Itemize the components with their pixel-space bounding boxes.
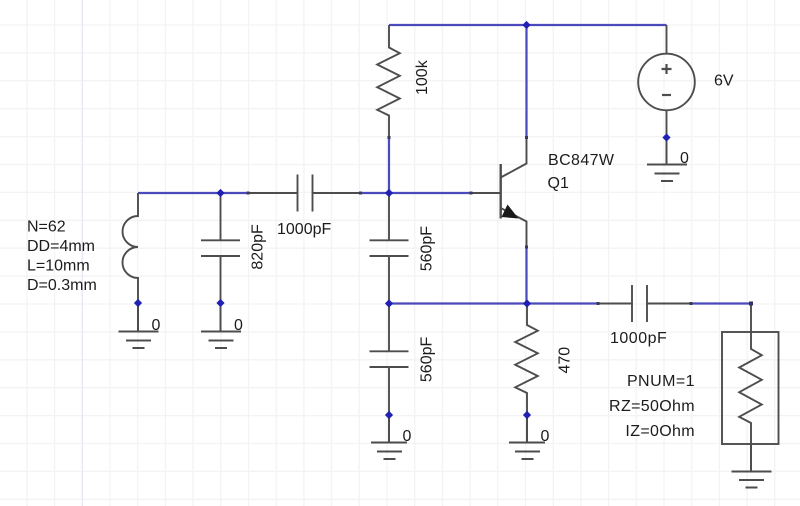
junction: C1 right pin: [359, 192, 362, 195]
svg-text:0: 0: [680, 150, 689, 167]
label: port parameters: [609, 373, 695, 440]
svg-text:L=10mm: L=10mm: [27, 258, 90, 275]
wire: R100k bottom to base row: [388, 138, 390, 194]
node: inductor gnd junction: [134, 299, 142, 307]
svg-text:Q1: Q1: [548, 175, 569, 192]
capacitor C3 560pF (upper): [370, 193, 409, 304]
inductor L1 (air coil): [123, 193, 139, 303]
svg-text:BC847W: BC847W: [548, 152, 615, 169]
svg-text:N=62: N=62: [27, 218, 66, 235]
svg-text:1000pF: 1000pF: [610, 330, 667, 347]
node: supply rail / collector junction: [522, 21, 530, 29]
junction: Q1 base pin: [470, 192, 473, 195]
svg-text:6V: 6V: [714, 73, 734, 90]
junction: R1 bottom pin: [388, 136, 391, 139]
wire: main horizontal base-row net: [138, 192, 248, 194]
node: output corner pin: [749, 302, 753, 306]
capacitor C4 560pF (lower): [370, 304, 409, 416]
label: inductor properties: [27, 218, 97, 294]
label: BC847W / Q1: [548, 152, 615, 192]
ground (C560 lower): [371, 415, 407, 459]
svg-text:RZ=50Ohm: RZ=50Ohm: [609, 398, 695, 415]
node: source minus junction: [662, 133, 670, 141]
voltage source V1 6V: [638, 25, 695, 138]
junction: C5 left pin: [597, 302, 600, 305]
junction: C1 left pin: [247, 192, 250, 195]
svg-text:DD=4mm: DD=4mm: [27, 238, 95, 255]
resistor R2 470: [515, 304, 538, 416]
junction: Q1 collector pin: [525, 136, 528, 139]
junction: C5 right pin: [690, 302, 693, 305]
svg-text:0: 0: [234, 317, 243, 334]
transistor Q1 BC847W: [471, 138, 527, 248]
svg-text:560pF: 560pF: [419, 226, 436, 272]
svg-text:470: 470: [557, 347, 574, 374]
svg-text:PNUM=1: PNUM=1: [627, 373, 695, 390]
ground (V source): [647, 138, 687, 182]
node: R470 gnd junction: [523, 411, 531, 419]
capacitor C1 1000pF (series, base row): [248, 175, 361, 212]
svg-text:D=0.3mm: D=0.3mm: [27, 277, 97, 294]
port P1 (50 Ohm termination): [722, 304, 779, 445]
svg-text:0: 0: [152, 317, 161, 334]
svg-text:1000pF: 1000pF: [277, 221, 331, 238]
wire: output row right of C1000b: [691, 302, 751, 304]
resistor R1 100k: [377, 25, 400, 138]
svg-text:0: 0: [403, 428, 412, 445]
junction: Q1 emitter pin: [525, 246, 528, 249]
node: emitter junction: [523, 299, 531, 307]
svg-text:100k: 100k: [414, 59, 431, 95]
svg-text:0: 0: [541, 428, 550, 445]
wire: top supply rail: [389, 24, 667, 26]
wire: emitter down: [525, 247, 527, 304]
capacitor C2 820pF: [201, 193, 240, 303]
wire: collector riser: [525, 25, 527, 138]
node: base/R100k junction: [385, 189, 393, 197]
ground (R470): [509, 415, 545, 459]
svg-text:560pF: 560pF: [419, 337, 436, 383]
node: base/C820 junction: [216, 189, 224, 197]
ground (C820): [201, 303, 241, 348]
wire: base row right of C1000: [361, 192, 471, 194]
node: C820 gnd junction: [216, 299, 224, 307]
node: C560 lower gnd junction: [385, 411, 393, 419]
capacitor C5 1000pF (output): [598, 285, 691, 322]
svg-text:IZ=0Ohm: IZ=0Ohm: [625, 423, 695, 440]
ground (port): [732, 444, 772, 488]
node: C560 mid junction: [385, 299, 393, 307]
wire: emitter row: [389, 302, 598, 304]
svg-text:820pF: 820pF: [250, 224, 267, 270]
ground (inductor): [119, 303, 159, 348]
